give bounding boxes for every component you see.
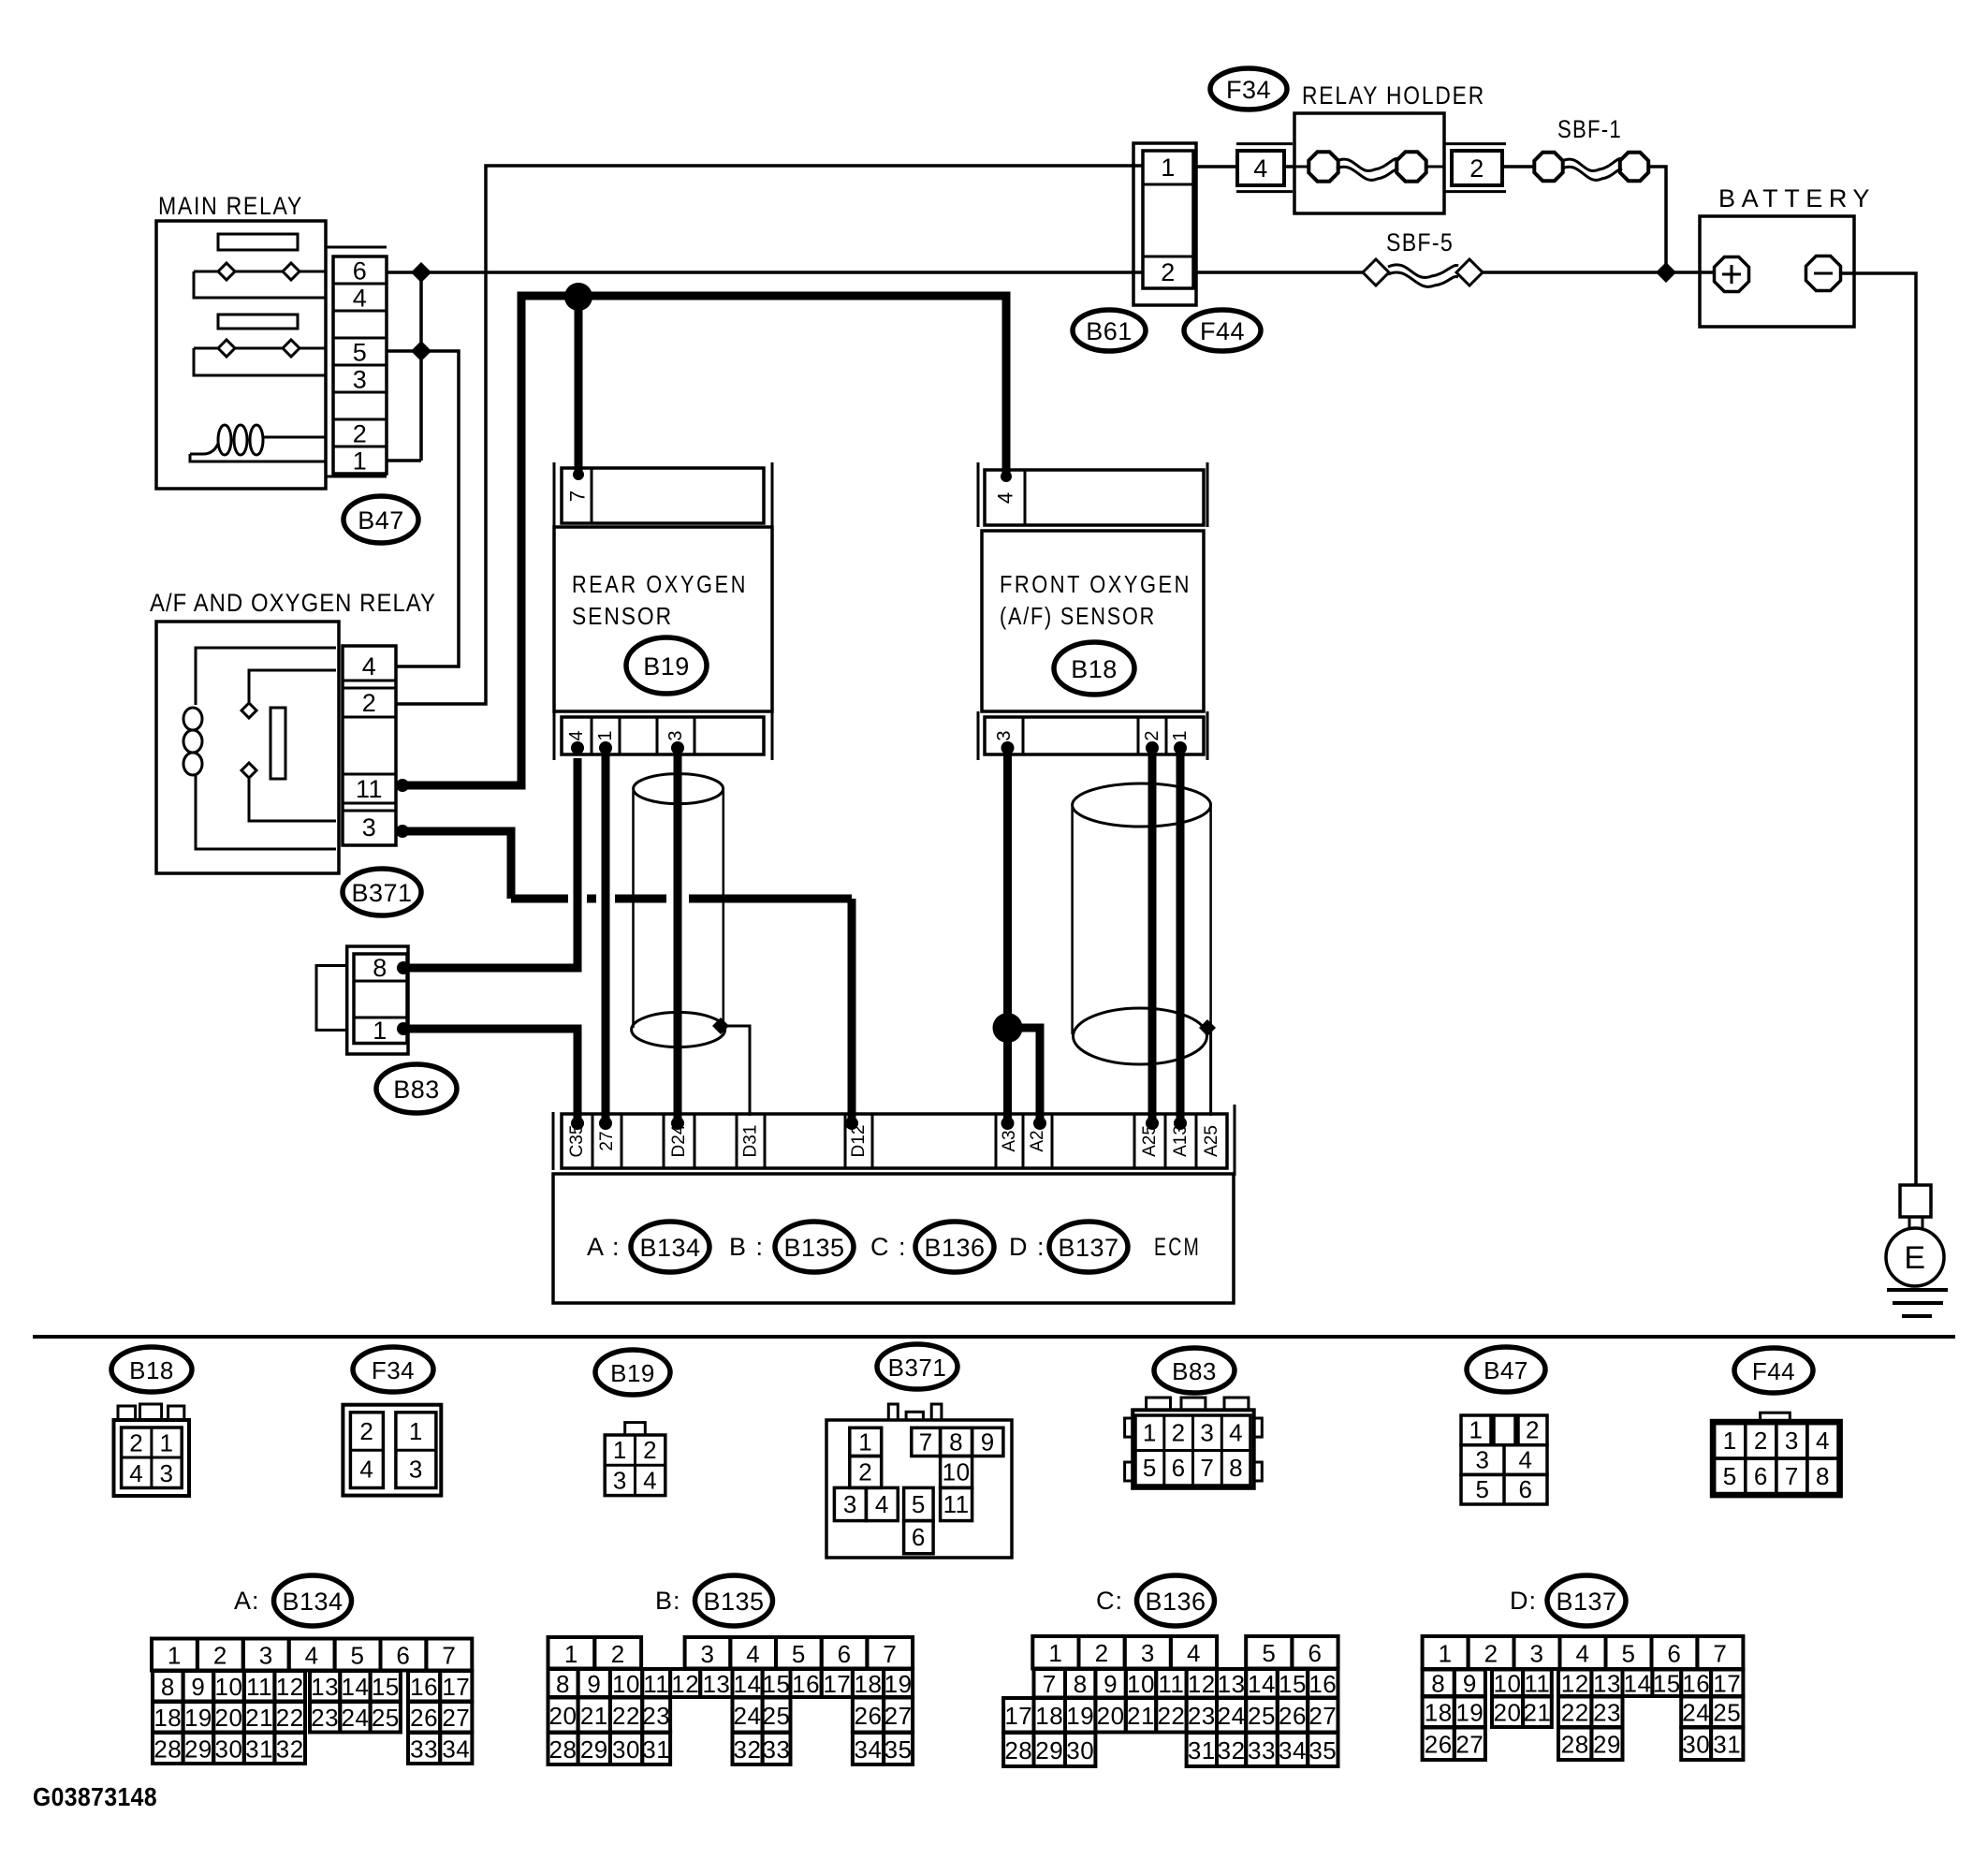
svg-text:1: 1 bbox=[168, 1642, 182, 1670]
label B47 ellipse bbox=[344, 496, 418, 543]
svg-text:1: 1 bbox=[1161, 154, 1176, 182]
label B18 ellipse bottom bbox=[111, 1347, 192, 1392]
ECM box bbox=[553, 1174, 1234, 1303]
relay MAIN RELAY box B47 bbox=[156, 221, 326, 489]
svg-text:3: 3 bbox=[259, 1642, 273, 1670]
junction dot B83 pin8 bbox=[397, 961, 410, 974]
connector B135 pinout grid bbox=[548, 1637, 914, 1764]
connector B137 pinout grid bbox=[1423, 1636, 1744, 1760]
ECM connector designation labels bbox=[587, 1222, 1201, 1272]
svg-text:2: 2 bbox=[1526, 1416, 1540, 1444]
svg-text:B19: B19 bbox=[643, 652, 690, 681]
relay holder box F34 bbox=[1294, 113, 1444, 213]
svg-text:11: 11 bbox=[1524, 1670, 1550, 1698]
svg-text:30: 30 bbox=[215, 1735, 243, 1764]
wire rear sensor signal to ECM cell2 bbox=[602, 754, 610, 1123]
svg-text:2: 2 bbox=[611, 1640, 625, 1668]
svg-text:7: 7 bbox=[883, 1640, 897, 1668]
svg-text:SBF-5: SBF-5 bbox=[1386, 228, 1454, 256]
svg-text:2: 2 bbox=[359, 1417, 373, 1445]
svg-text:27: 27 bbox=[442, 1704, 470, 1732]
svg-text:20: 20 bbox=[215, 1704, 243, 1732]
svg-text:3: 3 bbox=[1530, 1640, 1544, 1668]
svg-text:2: 2 bbox=[1095, 1639, 1109, 1667]
svg-text:19: 19 bbox=[1455, 1699, 1484, 1727]
svg-text:G03873148: G03873148 bbox=[33, 1782, 157, 1811]
svg-text:7: 7 bbox=[919, 1428, 933, 1457]
svg-text:24: 24 bbox=[341, 1704, 369, 1732]
junction dot A/F relay pin3 bbox=[396, 825, 409, 838]
svg-text:B47: B47 bbox=[1484, 1356, 1528, 1384]
sensor FRONT bottom connector bbox=[985, 717, 1204, 754]
svg-text:6: 6 bbox=[353, 257, 368, 285]
svg-text:14: 14 bbox=[734, 1670, 762, 1698]
svg-text:10: 10 bbox=[612, 1670, 640, 1698]
svg-text:MAIN RELAY: MAIN RELAY bbox=[158, 192, 303, 220]
svg-text:7: 7 bbox=[566, 490, 590, 502]
junction dot A/F relay pin11 bbox=[396, 779, 409, 792]
svg-text:3: 3 bbox=[1141, 1639, 1155, 1667]
svg-text:11: 11 bbox=[1158, 1670, 1184, 1698]
junction diamond at battery feed bbox=[1656, 262, 1676, 283]
svg-text:5: 5 bbox=[1723, 1462, 1737, 1490]
svg-text:15: 15 bbox=[763, 1670, 791, 1698]
svg-text:25: 25 bbox=[763, 1702, 791, 1730]
svg-text:9: 9 bbox=[1104, 1670, 1118, 1698]
svg-text:B371: B371 bbox=[351, 879, 412, 907]
wire stub dot ECM A2 bbox=[1033, 1117, 1046, 1130]
svg-text:17: 17 bbox=[1713, 1670, 1741, 1698]
svg-text:1: 1 bbox=[1723, 1427, 1737, 1455]
label F44 ellipse bottom bbox=[1734, 1348, 1813, 1393]
svg-text:A3: A3 bbox=[1000, 1130, 1019, 1151]
wire main relay pin6 to B61 pin2 bbox=[387, 271, 1143, 274]
sensor FRONT OXYGEN top connector brackets bbox=[977, 462, 980, 527]
A/F relay armature bbox=[270, 708, 285, 779]
svg-text:1: 1 bbox=[409, 1417, 423, 1445]
wire B61 pin1 to A/F relay pin2 bbox=[396, 166, 1143, 704]
svg-text:27: 27 bbox=[884, 1702, 913, 1730]
relay contact slot 1 bbox=[218, 234, 298, 250]
wire junction to A/F relay pin4 bbox=[396, 351, 459, 666]
svg-text:5: 5 bbox=[792, 1640, 806, 1668]
svg-text:1: 1 bbox=[353, 447, 368, 476]
svg-text:28: 28 bbox=[549, 1735, 577, 1764]
wire connector 2 to SBF-1 bbox=[1502, 165, 1533, 168]
svg-text:D :: D : bbox=[1009, 1233, 1045, 1261]
label F44 ellipse bbox=[1184, 310, 1261, 351]
junction dots rear bottom pins bbox=[571, 741, 684, 754]
svg-text:1: 1 bbox=[1469, 1416, 1484, 1444]
ground hatch lines bbox=[1887, 1290, 1948, 1316]
svg-text:25: 25 bbox=[1713, 1699, 1741, 1727]
svg-text:4: 4 bbox=[994, 492, 1017, 504]
svg-text:SBF-1: SBF-1 bbox=[1557, 115, 1622, 143]
svg-text:13: 13 bbox=[1218, 1670, 1246, 1698]
junction dot on heater bus bbox=[564, 283, 592, 311]
wire branch to ECM A2 bbox=[1008, 1028, 1041, 1123]
svg-text:3: 3 bbox=[843, 1490, 857, 1518]
svg-text:23: 23 bbox=[1593, 1699, 1621, 1727]
svg-text:4: 4 bbox=[129, 1459, 143, 1487]
svg-text:C35: C35 bbox=[567, 1125, 587, 1158]
svg-text:24: 24 bbox=[734, 1702, 762, 1730]
svg-text:30: 30 bbox=[1066, 1736, 1094, 1764]
svg-text:2: 2 bbox=[1142, 730, 1162, 740]
wire A/F relay pin3 to ECM D12 bbox=[396, 831, 852, 1123]
svg-text:4: 4 bbox=[362, 652, 377, 681]
junction dot on front signal wire bbox=[993, 1013, 1023, 1043]
svg-text:29: 29 bbox=[1593, 1731, 1621, 1759]
svg-text:33: 33 bbox=[410, 1735, 438, 1764]
connector 2 box bbox=[1452, 151, 1502, 185]
svg-text:32: 32 bbox=[276, 1735, 304, 1764]
label A: B134 bbox=[234, 1575, 352, 1626]
svg-text:4: 4 bbox=[359, 1456, 373, 1484]
svg-text:A25: A25 bbox=[1202, 1125, 1221, 1157]
svg-text:28: 28 bbox=[153, 1735, 182, 1764]
svg-text:8: 8 bbox=[1816, 1462, 1830, 1490]
connector 4 bracket lines bbox=[1236, 142, 1293, 145]
svg-text:8: 8 bbox=[161, 1673, 175, 1701]
svg-text:4: 4 bbox=[1187, 1639, 1201, 1667]
svg-text:23: 23 bbox=[311, 1704, 339, 1732]
wire junction vertical to pin1 bbox=[419, 272, 423, 461]
relay A/F AND OXYGEN RELAY box B371 bbox=[156, 622, 339, 873]
svg-text:10: 10 bbox=[1494, 1670, 1522, 1698]
svg-text:2: 2 bbox=[213, 1642, 227, 1670]
svg-text:4: 4 bbox=[566, 730, 587, 740]
label B19 ellipse bottom bbox=[595, 1350, 670, 1395]
connector B83 pinout bbox=[1125, 1398, 1263, 1488]
svg-text:14: 14 bbox=[1624, 1670, 1652, 1698]
ground E circle bbox=[1886, 1228, 1944, 1286]
svg-text:17: 17 bbox=[823, 1670, 851, 1698]
svg-text:F44: F44 bbox=[1752, 1357, 1795, 1385]
svg-text:B83: B83 bbox=[1172, 1357, 1217, 1385]
svg-text:21: 21 bbox=[580, 1702, 608, 1730]
sensor FRONT OXYGEN (A/F) SENSOR box B18 bbox=[982, 531, 1204, 711]
svg-text:8: 8 bbox=[1229, 1454, 1243, 1482]
svg-text:15: 15 bbox=[372, 1673, 400, 1701]
svg-text:SENSOR: SENSOR bbox=[572, 602, 673, 630]
wire tip dot rear pin7 bbox=[573, 469, 584, 480]
wire SBF-1 to battery junction bbox=[1649, 167, 1666, 272]
svg-text:24: 24 bbox=[1218, 1702, 1246, 1730]
svg-text:9: 9 bbox=[1463, 1670, 1477, 1698]
svg-text:4: 4 bbox=[1576, 1640, 1590, 1668]
connector B19 pinout bbox=[605, 1423, 665, 1496]
svg-text:27: 27 bbox=[1308, 1702, 1337, 1730]
label B83 ellipse bbox=[376, 1064, 457, 1113]
section separator line bbox=[33, 1335, 1955, 1339]
A/F relay inner frame top bbox=[196, 648, 336, 705]
sensor REAR bottom connector brackets bbox=[553, 711, 556, 760]
svg-text:14: 14 bbox=[341, 1673, 369, 1701]
label B371 ellipse bottom bbox=[877, 1344, 957, 1389]
svg-text:6: 6 bbox=[1667, 1640, 1681, 1668]
wire battery minus to ground bbox=[1842, 273, 1916, 1185]
svg-text:26: 26 bbox=[1279, 1702, 1307, 1730]
label C: B136 bbox=[1096, 1575, 1215, 1626]
svg-text:29: 29 bbox=[184, 1735, 212, 1764]
svg-text:1: 1 bbox=[1170, 730, 1191, 740]
svg-text:2: 2 bbox=[1161, 258, 1176, 286]
svg-text:16: 16 bbox=[792, 1670, 820, 1698]
label B61 ellipse bbox=[1073, 310, 1146, 351]
svg-text:17: 17 bbox=[442, 1673, 470, 1701]
svg-text:B137: B137 bbox=[1058, 1234, 1118, 1262]
shield cylinder rear - bottom ellipse bbox=[632, 1012, 725, 1047]
svg-text:(A/F) SENSOR: (A/F) SENSOR bbox=[1000, 602, 1156, 630]
svg-text:22: 22 bbox=[276, 1704, 304, 1732]
svg-text:F34: F34 bbox=[372, 1356, 415, 1384]
svg-text:26: 26 bbox=[855, 1702, 883, 1730]
svg-text:21: 21 bbox=[245, 1704, 273, 1732]
wire main relay pin5 stub bbox=[387, 349, 421, 353]
svg-text:16: 16 bbox=[410, 1673, 438, 1701]
svg-text:3: 3 bbox=[362, 813, 377, 842]
svg-text:A :: A : bbox=[587, 1233, 621, 1261]
label B18 ellipse bbox=[1054, 642, 1134, 695]
connector B136 pinout grid bbox=[1003, 1636, 1338, 1766]
label B371 ellipse bbox=[343, 869, 421, 915]
svg-text:12: 12 bbox=[276, 1673, 304, 1701]
svg-text:7: 7 bbox=[1200, 1454, 1214, 1482]
svg-text:B83: B83 bbox=[393, 1076, 440, 1104]
svg-text:B134: B134 bbox=[282, 1588, 343, 1616]
svg-text:6: 6 bbox=[1172, 1454, 1186, 1482]
svg-text:23: 23 bbox=[1188, 1702, 1216, 1730]
svg-text:3: 3 bbox=[353, 366, 368, 394]
svg-text:12: 12 bbox=[1561, 1670, 1589, 1698]
svg-text:2: 2 bbox=[858, 1458, 872, 1486]
sensor REAR OXYGEN label text bbox=[572, 570, 748, 630]
svg-text:1: 1 bbox=[373, 1017, 387, 1045]
svg-text:5: 5 bbox=[1262, 1639, 1276, 1667]
wire stub dot front pin1 at ECM bbox=[1174, 1117, 1187, 1130]
svg-text:2: 2 bbox=[353, 420, 368, 448]
svg-text:4: 4 bbox=[353, 285, 368, 313]
svg-text:FRONT OXYGEN: FRONT OXYGEN bbox=[1000, 570, 1191, 598]
svg-text:7: 7 bbox=[1713, 1640, 1727, 1668]
svg-text:30: 30 bbox=[612, 1735, 640, 1764]
relay coil L1 bbox=[190, 425, 326, 461]
svg-text:4: 4 bbox=[1816, 1427, 1830, 1455]
svg-text:25: 25 bbox=[372, 1704, 400, 1732]
svg-text:21: 21 bbox=[1127, 1702, 1155, 1730]
svg-text:22: 22 bbox=[612, 1702, 640, 1730]
svg-text:A:: A: bbox=[234, 1587, 260, 1615]
svg-text:10: 10 bbox=[1127, 1670, 1155, 1698]
svg-text:33: 33 bbox=[763, 1735, 791, 1764]
svg-text:11: 11 bbox=[943, 1490, 970, 1518]
svg-text:22: 22 bbox=[1561, 1699, 1589, 1727]
svg-text:3: 3 bbox=[1476, 1446, 1490, 1474]
svg-text:5: 5 bbox=[1622, 1640, 1636, 1668]
wire B61 pin2 to SBF-5 bbox=[1193, 271, 1365, 274]
svg-text:B18: B18 bbox=[1071, 655, 1118, 683]
svg-text:31: 31 bbox=[1713, 1731, 1741, 1759]
ECM pin row left bracket bbox=[552, 1112, 555, 1170]
svg-text:D24: D24 bbox=[669, 1124, 689, 1157]
svg-text:1: 1 bbox=[1143, 1419, 1157, 1447]
shield cylinder front - right wall drain bbox=[1209, 807, 1212, 1024]
svg-text:6: 6 bbox=[1754, 1462, 1768, 1490]
battery box bbox=[1700, 216, 1854, 327]
sensor FRONT OXYGEN top connector bbox=[985, 470, 1204, 525]
svg-text:B135: B135 bbox=[783, 1234, 844, 1262]
svg-text:B47: B47 bbox=[358, 506, 404, 534]
A/F relay inner frame bottom bbox=[196, 775, 336, 849]
connector B61/F44 pin box bbox=[1143, 151, 1193, 288]
wire stub dot ECM D24 bbox=[671, 1117, 684, 1130]
shield cylinder front - top ellipse bbox=[1073, 783, 1211, 827]
svg-text:6: 6 bbox=[1519, 1475, 1533, 1503]
connector B134 pinout grid bbox=[152, 1639, 472, 1764]
svg-text:BATTERY: BATTERY bbox=[1718, 184, 1876, 212]
svg-text:3: 3 bbox=[994, 730, 1015, 740]
ECM pin row bbox=[562, 1114, 1227, 1168]
svg-text:19: 19 bbox=[1066, 1702, 1094, 1730]
svg-text:10: 10 bbox=[943, 1458, 971, 1486]
svg-text:REAR OXYGEN: REAR OXYGEN bbox=[572, 570, 748, 598]
label B19 ellipse bbox=[626, 637, 707, 694]
sensor REAR bottom connector bbox=[562, 717, 764, 754]
wire stub dot into ECM cell1 bbox=[571, 1117, 584, 1130]
svg-text:26: 26 bbox=[1425, 1731, 1453, 1759]
svg-text:19: 19 bbox=[184, 1704, 212, 1732]
sensor REAR OXYGEN SENSOR top connector brackets bbox=[553, 462, 556, 527]
fuse SBF-5 bbox=[1363, 259, 1483, 286]
svg-text:11: 11 bbox=[356, 775, 383, 803]
connector F34 pinout bbox=[343, 1405, 441, 1496]
svg-text:34: 34 bbox=[442, 1735, 470, 1764]
svg-text:20: 20 bbox=[1494, 1699, 1522, 1727]
label B47 ellipse bottom bbox=[1467, 1347, 1545, 1392]
svg-text:F44: F44 bbox=[1200, 317, 1245, 345]
svg-text:15: 15 bbox=[1653, 1670, 1681, 1698]
svg-text:2: 2 bbox=[1484, 1640, 1498, 1668]
svg-text:3: 3 bbox=[613, 1467, 627, 1495]
svg-text:8: 8 bbox=[556, 1670, 570, 1698]
ECM pin labels rotated bbox=[567, 1124, 1221, 1157]
svg-text:6: 6 bbox=[912, 1523, 926, 1551]
svg-text:4: 4 bbox=[1229, 1419, 1243, 1447]
junction node on pin6 wire bbox=[411, 262, 431, 283]
svg-text:11: 11 bbox=[643, 1670, 669, 1698]
svg-text:5: 5 bbox=[353, 339, 368, 367]
sensor REAR OXYGEN SENSOR box B19 bbox=[554, 527, 772, 711]
svg-text:4: 4 bbox=[746, 1640, 760, 1668]
svg-text:21: 21 bbox=[1523, 1699, 1551, 1727]
svg-text:4: 4 bbox=[1253, 154, 1268, 183]
svg-text:31: 31 bbox=[1188, 1736, 1216, 1764]
svg-text:2: 2 bbox=[1469, 154, 1484, 183]
wire front sensor pin3 to ECM A3 bbox=[1003, 754, 1012, 1123]
svg-text:22: 22 bbox=[1157, 1702, 1185, 1730]
sensor REAR OXYGEN SENSOR top connector bbox=[562, 468, 764, 523]
svg-text:6: 6 bbox=[1308, 1639, 1323, 1667]
svg-text:26: 26 bbox=[410, 1704, 438, 1732]
svg-text:1: 1 bbox=[1048, 1639, 1062, 1667]
svg-text:11: 11 bbox=[246, 1673, 272, 1701]
svg-text:D:: D: bbox=[1510, 1587, 1537, 1615]
svg-text:9: 9 bbox=[981, 1428, 995, 1457]
svg-text:4: 4 bbox=[643, 1467, 657, 1495]
svg-text:35: 35 bbox=[884, 1735, 913, 1764]
svg-text:2: 2 bbox=[1754, 1427, 1768, 1455]
shield drain junction diamond front bbox=[1199, 1019, 1216, 1036]
svg-text:12: 12 bbox=[1188, 1670, 1216, 1698]
connector F44 pinout bbox=[1712, 1413, 1841, 1496]
svg-text:28: 28 bbox=[1004, 1736, 1032, 1764]
label B: B135 bbox=[655, 1575, 773, 1626]
svg-text:18: 18 bbox=[1425, 1699, 1453, 1727]
svg-text:3: 3 bbox=[160, 1459, 174, 1487]
svg-text:17: 17 bbox=[1004, 1702, 1032, 1730]
svg-text:1: 1 bbox=[564, 1640, 578, 1668]
battery minus terminal bbox=[1806, 256, 1841, 291]
svg-text:1: 1 bbox=[613, 1436, 627, 1464]
svg-text:5: 5 bbox=[351, 1642, 365, 1670]
svg-text:35: 35 bbox=[1308, 1736, 1337, 1764]
wire rear sensor pin to B83 pin8 bbox=[407, 758, 577, 968]
svg-text:A/F AND OXYGEN RELAY: A/F AND OXYGEN RELAY bbox=[150, 589, 436, 617]
connector B83 pin box bbox=[354, 954, 407, 1045]
svg-text:1: 1 bbox=[1439, 1640, 1453, 1668]
svg-text:34: 34 bbox=[855, 1735, 883, 1764]
sensor FRONT bottom connector brackets bbox=[977, 711, 980, 760]
connector B47 bracket lines bbox=[326, 246, 387, 249]
wire stub dot ECM A3 bbox=[1001, 1117, 1015, 1130]
svg-text:4: 4 bbox=[875, 1490, 889, 1518]
svg-text:6: 6 bbox=[396, 1642, 410, 1670]
svg-text:D12: D12 bbox=[849, 1125, 869, 1158]
svg-text:29: 29 bbox=[580, 1735, 608, 1764]
svg-text:15: 15 bbox=[1279, 1670, 1307, 1698]
junction node on pin5 wire bbox=[411, 341, 431, 361]
connector 4 box bbox=[1237, 151, 1284, 185]
wire connector 4 to relay holder bbox=[1284, 165, 1294, 168]
svg-text:B18: B18 bbox=[129, 1356, 174, 1384]
shield cylinder rear - top ellipse bbox=[634, 774, 724, 804]
svg-text:8: 8 bbox=[949, 1428, 963, 1457]
svg-text:3: 3 bbox=[409, 1456, 423, 1484]
svg-text:16: 16 bbox=[1308, 1670, 1337, 1698]
sensor FRONT OXYGEN label text bbox=[1000, 570, 1191, 630]
svg-text:A25: A25 bbox=[1140, 1125, 1160, 1157]
svg-text:B61: B61 bbox=[1086, 317, 1133, 345]
svg-text:9: 9 bbox=[587, 1670, 601, 1698]
connector B83 side tab bbox=[316, 966, 347, 1031]
svg-text:8: 8 bbox=[1431, 1670, 1445, 1698]
connector B371 pinout bbox=[826, 1404, 1012, 1558]
svg-text:29: 29 bbox=[1035, 1736, 1063, 1764]
wire rear sensor signal to ECM D24 bbox=[674, 754, 682, 1123]
svg-text:C :: C : bbox=[870, 1233, 907, 1261]
svg-text:3: 3 bbox=[1200, 1419, 1214, 1447]
svg-text:4: 4 bbox=[1519, 1446, 1533, 1474]
svg-text:32: 32 bbox=[734, 1735, 762, 1764]
svg-text:3: 3 bbox=[1785, 1427, 1799, 1455]
svg-text:7: 7 bbox=[1785, 1462, 1799, 1490]
svg-text:B136: B136 bbox=[924, 1234, 985, 1262]
ground terminal square bbox=[1900, 1185, 1931, 1217]
relay contact slot 2 bbox=[218, 315, 298, 329]
label F34 ellipse bbox=[1210, 68, 1287, 110]
svg-text:13: 13 bbox=[311, 1673, 339, 1701]
